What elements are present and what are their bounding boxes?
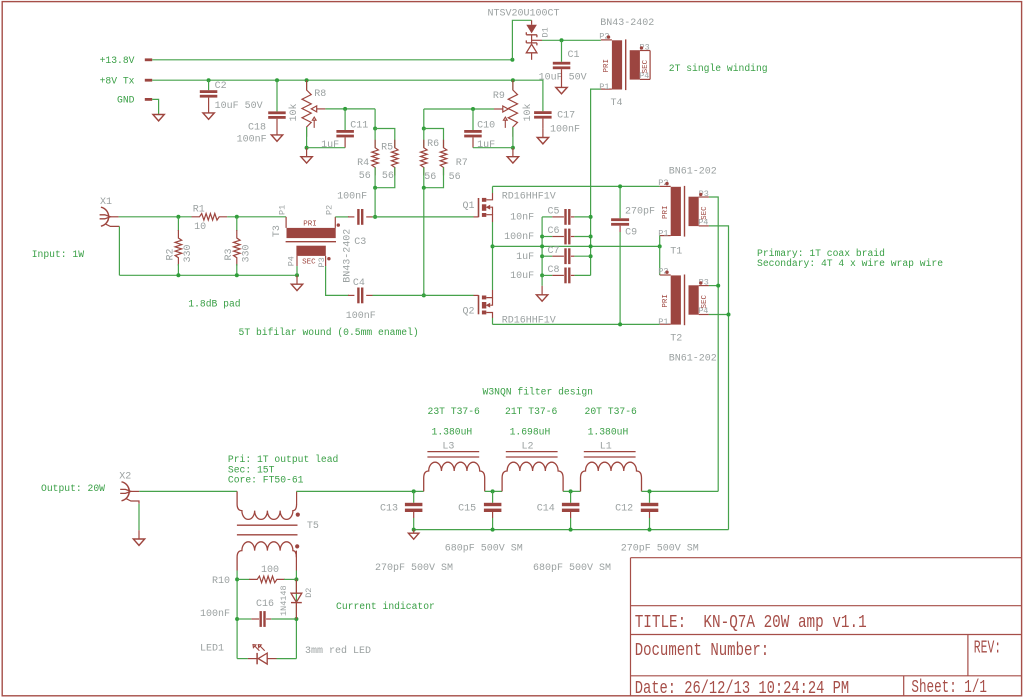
junction R8 top — [305, 78, 309, 82]
svg-text:P1: P1 — [658, 317, 668, 327]
svg-text:C3: C3 — [354, 237, 366, 248]
wire T1 P1 down to T2 P2 — [659, 246, 661, 275]
svg-text:TITLE: KN-Q7A 20W amp v1.1: TITLE: KN-Q7A 20W amp v1.1 — [635, 613, 867, 633]
svg-text:100: 100 — [261, 565, 279, 576]
R9 shaft arrow — [503, 117, 507, 128]
ground at input bottom line — [291, 284, 302, 290]
capacitor C16 — [237, 618, 251, 620]
junction C15 bottom — [491, 528, 495, 532]
junction C14 top — [569, 489, 573, 493]
junction R10 left — [235, 577, 239, 581]
capacitor C3 — [348, 216, 354, 218]
svg-text:R7: R7 — [456, 158, 468, 169]
wire R6 top stub — [423, 129, 425, 148]
wire mid rail to T1 P1 — [493, 245, 660, 247]
svg-text:C6: C6 — [548, 226, 560, 237]
svg-text:56: 56 — [424, 172, 436, 183]
svg-text:100nF: 100nF — [346, 311, 376, 322]
diode D2 1N4148 — [295, 579, 297, 592]
transistor Q2 RD16HHF1V — [474, 294, 479, 296]
svg-text:C8: C8 — [548, 265, 560, 276]
svg-text:10k: 10k — [522, 103, 534, 121]
wire X2 to T5 — [139, 490, 237, 492]
svg-text:RD16HHF1V: RD16HHF1V — [502, 191, 556, 202]
junction C3 / Q1 gate row — [373, 215, 377, 219]
capacitor C6 — [542, 236, 552, 238]
svg-text:R8: R8 — [314, 89, 326, 100]
ground under R9 — [507, 157, 518, 163]
svg-text:10uF: 10uF — [510, 271, 534, 282]
wire L2 to L1 — [563, 490, 580, 492]
svg-text:Input: 1W: Input: 1W — [32, 249, 85, 260]
junction C18 top — [275, 78, 279, 82]
junction R4/R5 top — [373, 127, 377, 131]
svg-text:10uF 50V: 10uF 50V — [215, 101, 263, 112]
junction right vert C6 — [589, 235, 593, 239]
wire D1 anode loop — [512, 20, 531, 60]
wire T1 P1 elbow to mid rail — [659, 236, 661, 247]
svg-text:L1: L1 — [600, 441, 612, 452]
junction C15 top — [491, 489, 495, 493]
svg-text:T4: T4 — [611, 98, 623, 109]
wire C18 top stub — [276, 80, 278, 111]
svg-text:T1: T1 — [670, 246, 682, 257]
svg-text:1.8dB pad: 1.8dB pad — [188, 298, 240, 309]
svg-text:NTSV20U100CT: NTSV20U100CT — [488, 9, 560, 20]
junction C9 bottom rail — [618, 322, 622, 326]
inductor L1 — [584, 451, 636, 453]
wire top rail Q1 drain to T1 P2 — [493, 185, 660, 187]
wire T4 secondary short P3-P4 — [649, 51, 651, 80]
T5 core lines — [237, 524, 298, 526]
wire R6/R7 bottoms join — [424, 167, 444, 187]
junction right vert C5 — [589, 215, 593, 219]
inductor L2 — [506, 451, 558, 453]
svg-text:100nF: 100nF — [200, 609, 230, 620]
wire R1 to T3 P1 — [227, 216, 286, 218]
capacitor C5 — [542, 216, 552, 218]
resistor R2 — [177, 217, 179, 231]
junction right vert C7 — [589, 254, 593, 258]
svg-text:+13.8V: +13.8V — [100, 55, 135, 66]
wire +8V Tx rail — [152, 80, 543, 111]
transformer T4 BN43-2402 — [601, 39, 612, 41]
svg-text:680pF 500V SM: 680pF 500V SM — [533, 563, 611, 574]
svg-text:T5: T5 — [307, 521, 319, 532]
svg-text:R4: R4 — [357, 158, 369, 169]
wire C2 top stub — [208, 80, 210, 90]
capacitor C12 — [649, 491, 651, 502]
svg-text:100nF: 100nF — [504, 232, 534, 243]
svg-text:R1: R1 — [193, 205, 205, 216]
wire Q1 drain to top rail — [492, 186, 494, 193]
junction Q1/Q2 source mid rail — [491, 244, 495, 248]
svg-text:R10: R10 — [212, 576, 230, 587]
LED LED1 — [237, 658, 248, 660]
svg-text:SEC: SEC — [642, 59, 650, 73]
wire T3 P3 to C4 — [326, 266, 349, 295]
wire R9 top stub — [512, 80, 514, 90]
svg-text:X1: X1 — [100, 197, 112, 208]
svg-text:1.380uH: 1.380uH — [432, 427, 473, 438]
title block frame — [631, 558, 1022, 696]
wire L1 to C12 and P3 riser — [642, 490, 719, 492]
inductor L3 — [427, 451, 479, 453]
svg-text:BN43-2402: BN43-2402 — [600, 18, 654, 29]
svg-text:100nF: 100nF — [550, 125, 580, 136]
wire T2 P3 branch — [709, 285, 718, 287]
R8 wiper arrow — [311, 106, 316, 112]
svg-text:SEC: SEC — [701, 206, 709, 220]
wire T1 P3 riser — [709, 197, 718, 491]
wire T1 P4 riser — [709, 226, 729, 530]
svg-text:C13: C13 — [380, 504, 398, 515]
R9 wiper arrow — [503, 106, 508, 112]
wire R5 top branch — [375, 129, 395, 148]
junction R9 bottom — [511, 146, 515, 150]
svg-text:R9: R9 — [493, 91, 505, 102]
junction C16 right — [294, 617, 298, 621]
wire C11 bottom to R8 bottom — [307, 147, 346, 149]
junction R9 top — [511, 78, 515, 82]
svg-text:R3: R3 — [224, 248, 235, 260]
junction R3 top — [235, 215, 239, 219]
junction left vert C8 — [540, 273, 544, 277]
svg-text:P2: P2 — [325, 205, 335, 215]
junction C1 top — [560, 38, 564, 42]
LED1 emission arrows — [253, 645, 259, 651]
junction C11 top — [343, 107, 347, 111]
transformer T5 secondary coil — [237, 542, 296, 571]
resistor R10 — [237, 578, 250, 580]
wire filter bottom line — [414, 529, 729, 531]
svg-text:680pF 500V SM: 680pF 500V SM — [445, 544, 523, 555]
junction R2 bottom — [176, 273, 180, 277]
wire R9 wiper to R6 branch — [424, 109, 494, 129]
wire R8 bottom — [306, 127, 308, 148]
ground under C5-C8 bank — [541, 275, 543, 285]
resistor R1 — [192, 214, 228, 221]
capacitor C4 — [348, 294, 354, 296]
svg-text:2T single winding: 2T single winding — [669, 63, 768, 74]
svg-text:T3: T3 — [272, 225, 283, 237]
wire C5-C8 left vertical — [541, 217, 543, 276]
wire Q1 source down — [492, 222, 494, 246]
wire T3 P4 down — [296, 266, 298, 275]
svg-text:Sheet: 1/1: Sheet: 1/1 — [911, 678, 987, 698]
svg-text:5T bifilar wound (0.5mm enamel: 5T bifilar wound (0.5mm enamel) — [239, 327, 419, 338]
svg-text:R2: R2 — [166, 248, 177, 260]
junction C13 top — [412, 489, 416, 493]
potentiometer R9 — [508, 80, 517, 137]
svg-text:C10: C10 — [477, 121, 495, 132]
svg-text:+8V Tx: +8V Tx — [100, 76, 135, 87]
svg-text:C7: C7 — [548, 246, 560, 257]
svg-text:1uF: 1uF — [321, 140, 339, 151]
wire T3 P2 to C3 — [335, 216, 349, 218]
svg-text:BN43-2402: BN43-2402 — [342, 229, 353, 283]
svg-text:P1: P1 — [278, 205, 288, 215]
svg-text:PRI: PRI — [603, 59, 611, 73]
capacitor C15 — [492, 491, 494, 502]
wire R4 bottom to gate row — [374, 188, 376, 217]
svg-text:C12: C12 — [615, 504, 633, 515]
capacitor C14 — [570, 491, 572, 502]
wire R8 top stub — [306, 80, 308, 90]
wire C10 top stub — [472, 109, 474, 130]
svg-text:PRI: PRI — [303, 221, 317, 229]
svg-text:10uF 50V: 10uF 50V — [539, 73, 587, 84]
svg-text:BN61-202: BN61-202 — [669, 166, 717, 177]
junction C9 top rail — [618, 184, 622, 188]
svg-text:330: 330 — [183, 244, 194, 262]
junction left vert mid rail — [540, 244, 544, 248]
svg-text:C14: C14 — [537, 504, 555, 515]
ground under C17 — [537, 138, 548, 144]
svg-text:330: 330 — [242, 244, 253, 262]
wire X2 shield down — [138, 504, 140, 530]
svg-text:Secondary: 4T 4 x wire wrap wi: Secondary: 4T 4 x wire wrap wire — [757, 258, 943, 269]
capacitor C9 270pF — [619, 186, 621, 218]
svg-text:Output: 20W: Output: 20W — [41, 483, 105, 494]
junction C16 left — [235, 617, 239, 621]
junction T1 P1 / T2 P2 — [658, 244, 662, 248]
junction R2 top — [176, 215, 180, 219]
transistor Q1 RD16HHF1V — [474, 216, 479, 218]
junction C13 bottom — [412, 528, 416, 532]
svg-text:1.698uH: 1.698uH — [510, 427, 551, 438]
svg-text:D2: D2 — [304, 588, 314, 598]
junction R8 bottom — [305, 146, 309, 150]
svg-text:C4: C4 — [353, 278, 365, 289]
svg-text:3mm red LED: 3mm red LED — [305, 645, 371, 657]
wire input bottom line — [119, 226, 297, 275]
R8 shaft arrow — [312, 117, 316, 128]
capacitor C1 — [553, 62, 571, 65]
junction left vert C7 — [540, 254, 544, 258]
junction C2 top — [207, 78, 211, 82]
transformer T2 BN61-202 — [660, 274, 671, 276]
wire R4/R5 bottoms join — [375, 167, 395, 187]
wire C5-C8 right vertical from T4 P1 — [574, 89, 601, 275]
svg-text:D1: D1 — [541, 27, 551, 37]
wire C3 to Q1 gate — [373, 216, 474, 218]
junction right vert mid rail — [589, 244, 593, 248]
svg-text:P3: P3 — [317, 257, 327, 267]
resistor R3 — [236, 217, 238, 231]
svg-text:56: 56 — [382, 171, 394, 182]
wire main line X2 tap to L3 — [296, 490, 423, 492]
capacitor C2 — [200, 90, 218, 93]
svg-text:C17: C17 — [557, 111, 575, 122]
wire T2 P4 branch — [709, 314, 729, 316]
resistor R4 — [372, 140, 379, 176]
svg-text:270pF: 270pF — [625, 207, 655, 218]
svg-text:REV:: REV: — [974, 638, 1001, 658]
svg-text:P4: P4 — [287, 256, 297, 266]
svg-text:100nF: 100nF — [337, 191, 367, 202]
junction C12 top — [648, 489, 652, 493]
resistor R6 — [421, 140, 428, 176]
capacitor C8 — [542, 274, 552, 276]
svg-text:L2: L2 — [522, 441, 534, 452]
svg-text:PRI: PRI — [662, 294, 670, 308]
svg-text:BN61-202: BN61-202 — [669, 354, 717, 365]
svg-text:C9: C9 — [625, 228, 637, 239]
svg-text:1N4148: 1N4148 — [279, 585, 289, 616]
svg-text:L3: L3 — [442, 441, 454, 452]
svg-text:W3NQN filter design: W3NQN filter design — [483, 386, 593, 397]
wire T5 sec left down — [236, 571, 238, 659]
junction left vert C6 — [540, 235, 544, 239]
potentiometer R8 — [302, 80, 311, 137]
junction R6/R7 top — [422, 127, 426, 131]
capacitor C7 — [542, 255, 552, 257]
svg-text:C18: C18 — [248, 123, 266, 134]
wire C11 top stub — [344, 109, 346, 130]
wire D1 cathode tap — [532, 39, 542, 41]
capacitor C17 — [534, 111, 552, 114]
svg-text:10: 10 — [194, 222, 206, 233]
svg-text:270pF 500V SM: 270pF 500V SM — [375, 563, 453, 574]
wire Q2 source up — [492, 246, 494, 290]
wire C1 top stub — [561, 40, 563, 62]
wire R7 top branch — [424, 129, 444, 148]
svg-text:T2: T2 — [670, 334, 682, 345]
svg-text:SEC: SEC — [302, 259, 316, 267]
svg-text:Date: 26/12/13 10:24:24 PM: Date: 26/12/13 10:24:24 PM — [635, 679, 850, 699]
wire R9 bottom — [512, 127, 514, 148]
ground under X2 — [133, 539, 144, 545]
svg-text:100nF: 100nF — [237, 135, 267, 146]
svg-text:GND: GND — [117, 94, 135, 105]
svg-text:Q1: Q1 — [463, 201, 475, 212]
wire +13.8V rail — [152, 59, 512, 61]
svg-text:C2: C2 — [215, 81, 227, 92]
wire R6 bottom to Q2 gate row — [423, 188, 425, 296]
svg-text:C16: C16 — [256, 599, 274, 610]
wire T5 sec right down — [295, 571, 297, 659]
svg-text:1uF: 1uF — [477, 140, 495, 151]
svg-text:20T T37-6: 20T T37-6 — [585, 406, 638, 417]
transformer T5 primary coil — [237, 491, 297, 519]
junction P3 riser T2 — [716, 284, 720, 288]
ground under C2 — [203, 113, 214, 119]
svg-text:X2: X2 — [119, 472, 131, 483]
junction C12 bottom — [648, 528, 652, 532]
transformer T3 — [285, 217, 287, 228]
svg-text:23T T37-6: 23T T37-6 — [428, 406, 481, 417]
junction R10 right — [294, 577, 298, 581]
wire C10 bottom to R9 bottom — [473, 147, 513, 149]
svg-text:1.380uH: 1.380uH — [588, 427, 629, 438]
junction R6/R7 bottom — [422, 186, 426, 190]
svg-text:C1: C1 — [568, 50, 580, 61]
junction +13.8V / D1 — [510, 58, 514, 62]
svg-text:LED1: LED1 — [200, 643, 224, 654]
svg-text:C5: C5 — [548, 207, 560, 218]
ground under C1 — [556, 87, 567, 93]
svg-text:Current indicator: Current indicator — [336, 601, 435, 612]
ground under R8 — [301, 157, 312, 163]
wire Q2 drain to bottom rail — [492, 318, 494, 324]
svg-text:56: 56 — [359, 171, 371, 182]
capacitor C11 — [336, 130, 354, 133]
junction T3 P4 / ground — [295, 273, 299, 277]
svg-text:R6: R6 — [427, 139, 439, 150]
svg-text:C15: C15 — [458, 504, 476, 515]
capacitor C13 — [413, 491, 415, 502]
svg-text:21T T37-6: 21T T37-6 — [505, 406, 558, 417]
ground under C18 — [271, 135, 282, 141]
resistor R5 — [392, 140, 399, 176]
ground under C13 — [413, 530, 415, 534]
wire X1 to R1 — [119, 216, 192, 218]
capacitor C10 — [464, 130, 482, 133]
wire R8 wiper to R4 branch — [325, 109, 375, 129]
junction R3 bottom — [235, 273, 239, 277]
svg-text:56: 56 — [449, 172, 461, 183]
svg-text:R5: R5 — [381, 143, 393, 154]
resistor R7 — [440, 140, 447, 176]
junction C10 top — [471, 107, 475, 111]
svg-text:1uF: 1uF — [516, 252, 534, 263]
svg-text:PRI: PRI — [662, 205, 670, 219]
capacitor C18 — [268, 111, 286, 114]
svg-text:SEC: SEC — [701, 294, 709, 308]
svg-text:C11: C11 — [350, 121, 368, 132]
wire L3 to L2 — [485, 490, 502, 492]
svg-text:Core: FT50-61: Core: FT50-61 — [228, 475, 304, 486]
transformer T1 BN61-202 — [660, 185, 671, 187]
svg-text:10nF: 10nF — [510, 213, 534, 224]
ground symbol under GND flag — [153, 115, 164, 121]
junction C4 / Q2 gate row — [422, 293, 426, 297]
wire C4 to Q2 gate — [373, 294, 474, 296]
svg-text:Q2: Q2 — [463, 306, 475, 317]
wire GND flag to ground — [152, 99, 158, 114]
svg-text:Document Number:: Document Number: — [635, 641, 770, 661]
wire bottom rail Q2 drain to T2 P1 — [493, 323, 660, 325]
wire R4 top stub — [374, 129, 376, 148]
junction P4 riser T2 — [727, 313, 731, 317]
svg-text:270pF 500V SM: 270pF 500V SM — [621, 544, 699, 555]
junction R4/R5 bottom — [373, 186, 377, 190]
svg-text:P1: P1 — [599, 82, 609, 92]
junction C14 bottom — [569, 528, 573, 532]
svg-text:10k: 10k — [288, 103, 300, 121]
